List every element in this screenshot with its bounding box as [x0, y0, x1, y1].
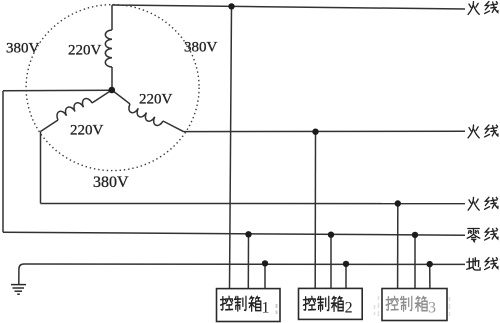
wire: star point to neutral left run — [3, 89, 112, 92]
wire: star point to left coil — [92, 90, 112, 103]
wire: L3 hot line (lower 火线) — [41, 203, 466, 205]
control box 1 — [217, 289, 281, 322]
wire: left drop to L3 — [40, 132, 42, 204]
svg-text:380V: 380V — [93, 174, 129, 191]
wire: neutral line (零线) — [3, 232, 465, 235]
svg-text:380V: 380V — [184, 40, 218, 56]
svg-text:1: 1 — [262, 300, 270, 317]
control box 1 label 控制箱1 — [221, 296, 261, 311]
wire: L1 hot line (top 火线) — [112, 5, 465, 9]
watermark smudge right of box 3 — [449, 297, 451, 316]
control box 3 — [382, 289, 447, 321]
wire: box1 right drop from earth — [264, 263, 266, 288]
svg-text:380V: 380V — [6, 41, 40, 57]
wire: box1 left drop from L1 — [230, 6, 232, 288]
node: neutral to box3 junction — [412, 232, 418, 238]
svg-text:220V: 220V — [70, 122, 104, 138]
label 火线 L3 — [468, 197, 498, 210]
watermark smudge right of box 1 — [276, 304, 278, 314]
wire: L2 hot line (middle 火线) — [184, 130, 466, 132]
svg-text:2: 2 — [345, 299, 353, 316]
label 火线 L2 — [468, 125, 498, 138]
node: L3 to box3 junction — [395, 200, 401, 206]
wire: star point to right coil — [112, 90, 130, 104]
wire: box1 middle drop from neutral — [247, 234, 249, 288]
wire: neutral left drop — [2, 91, 4, 232]
label 地线 earth — [467, 258, 498, 271]
node: neutral to box2 junction — [328, 232, 334, 238]
watermark smudge left of box 3 — [375, 296, 379, 316]
svg-text:220V: 220V — [68, 43, 102, 59]
node: L2 to box2 junction — [312, 129, 318, 135]
wire: right coil to L2 corner — [163, 121, 184, 132]
svg-text:3: 3 — [428, 300, 436, 317]
winding coil top (220V) — [105, 30, 112, 67]
node: neutral to box1 junction — [245, 231, 251, 237]
wire: box3 left drop from L3 — [397, 204, 399, 289]
control box 2 label 控制箱2 — [303, 296, 343, 311]
svg-text:220V: 220V — [139, 92, 173, 108]
node: star point — [109, 87, 116, 94]
dotted circle (motor winding boundary) — [26, 5, 199, 171]
ground symbol — [11, 285, 26, 295]
node: earth to box1 junction — [262, 260, 268, 266]
wire: box3 right drop from earth — [429, 264, 431, 288]
winding coil right (220V) — [129, 104, 163, 125]
node: L1 to box1 junction — [228, 3, 234, 9]
winding coil left (220V) — [57, 99, 92, 120]
node: earth to box2 junction — [343, 261, 349, 267]
wire: top phase riser — [111, 5, 113, 30]
label 火线 L1 — [468, 2, 498, 15]
control box 2 — [299, 288, 363, 319]
wire: coil top to star point — [111, 67, 113, 90]
wire: box2 middle drop from neutral — [330, 235, 332, 289]
wire: box3 middle drop from neutral — [414, 235, 416, 289]
wire: box2 left drop from L2 — [314, 132, 316, 288]
wire: box2 right drop from earth — [345, 264, 347, 289]
label 零线 neutral — [467, 228, 498, 242]
wire: left coil to corner — [41, 120, 59, 132]
wire: earth line (地线) — [19, 264, 465, 284]
node: earth to box3 junction — [427, 261, 433, 267]
control box 3 label 控制箱3 (faded by watermark) — [386, 296, 427, 311]
